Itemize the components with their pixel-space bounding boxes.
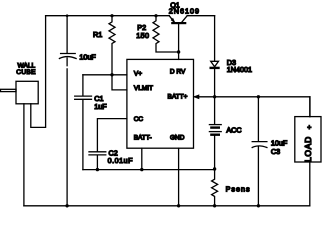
svg-text:10uF: 10uF <box>79 52 96 61</box>
wire BATT- pin stub <box>141 148 143 169</box>
node D3 / BATT+ junction <box>213 95 216 98</box>
svg-text:1N4001: 1N4001 <box>227 65 252 74</box>
svg-text:CC: CC <box>134 116 144 123</box>
wire Q1 base to DRV pin <box>178 24 180 60</box>
resistor P2 <box>153 14 179 52</box>
resistor R1 <box>109 14 115 75</box>
node P2 / DRV junction <box>177 50 180 53</box>
svg-text:Psens: Psens <box>226 184 251 193</box>
node C3 / BATT+ junction <box>257 95 260 98</box>
svg-text:D RV: D RV <box>170 68 186 75</box>
wire bottom ground rail <box>24 205 310 207</box>
node Psens ground junction <box>213 204 216 207</box>
svg-text:C3: C3 <box>271 147 280 156</box>
svg-text:CUBE: CUBE <box>16 69 36 76</box>
load box <box>295 97 321 206</box>
arrowhead into BATT+ pin <box>194 95 199 99</box>
svg-text:150: 150 <box>136 31 149 40</box>
wire V+ pin <box>83 74 127 76</box>
svg-text:VLMIT: VLMIT <box>134 85 153 92</box>
wire rail to D3 <box>214 16 216 62</box>
wire BATT- rail <box>83 169 215 171</box>
node BATT- / sense junction <box>213 167 216 170</box>
diode D3 <box>211 61 219 68</box>
wire GND pin stub <box>178 148 180 206</box>
svg-text:V+: V+ <box>134 71 142 78</box>
transistor Q1 <box>169 16 187 23</box>
node P1 ground junction <box>65 204 68 207</box>
svg-text:1uF: 1uF <box>94 102 107 111</box>
wire R1 to VLIMIT pin <box>112 75 127 90</box>
wire BATT+ rail <box>194 97 310 117</box>
node R1 / V+ junction <box>110 73 113 76</box>
wall cube <box>1 16 46 206</box>
svg-text:ACC: ACC <box>226 126 241 135</box>
capacitor C1 <box>75 75 92 170</box>
svg-text:0.01uF: 0.01uF <box>108 156 133 165</box>
svg-text:+: + <box>307 124 311 131</box>
capacitor P1 10uF <box>59 14 76 205</box>
capacitor C3 <box>252 97 267 206</box>
svg-text:2N6109: 2N6109 <box>169 7 200 16</box>
svg-text:BATT-: BATT- <box>134 135 152 142</box>
node C3 ground junction <box>257 204 260 207</box>
svg-text:R1: R1 <box>93 30 102 39</box>
wire top rail right segment <box>187 15 214 17</box>
svg-text:LOAD: LOAD <box>303 136 313 162</box>
wire D3 to BATT+ rail <box>214 69 216 97</box>
resistor Psens <box>212 169 218 206</box>
svg-text:GND: GND <box>170 135 185 142</box>
svg-text:BATT+: BATT+ <box>168 94 188 101</box>
capacitor C2 <box>89 119 127 172</box>
wire top rail left segment <box>46 15 170 17</box>
battery ACC <box>209 97 221 169</box>
op-amp U1 charger IC box <box>127 59 194 148</box>
